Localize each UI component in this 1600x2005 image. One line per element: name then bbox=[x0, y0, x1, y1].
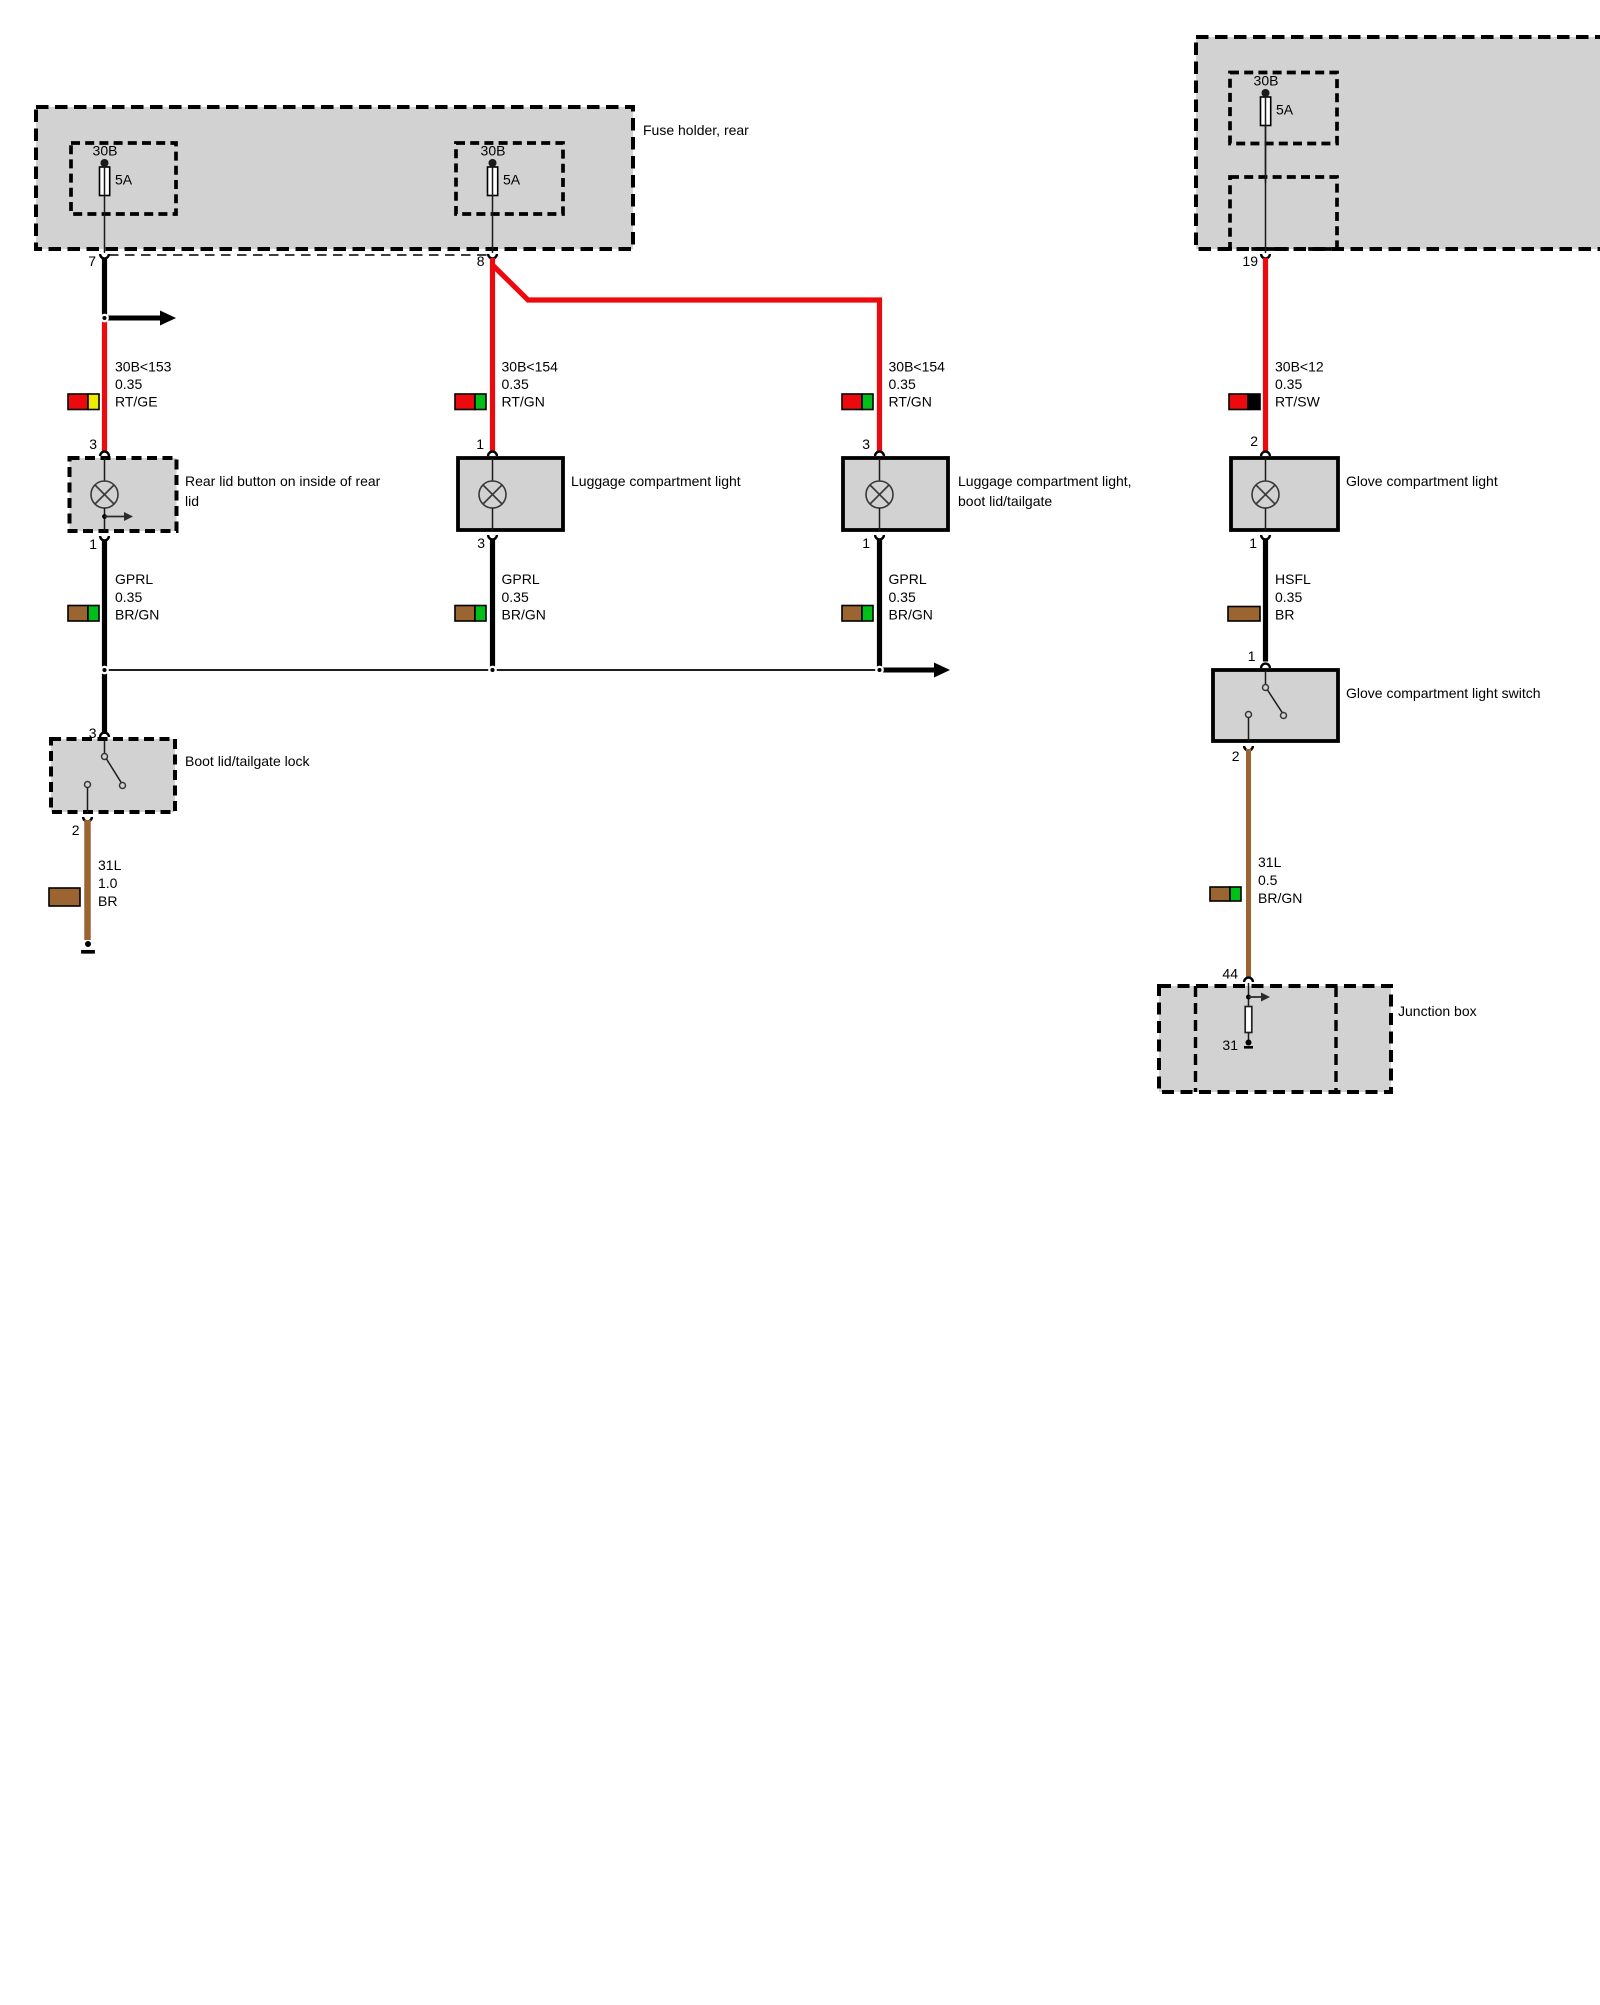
fuse F2 5A with 30B terminal bbox=[481, 143, 521, 254]
pin 19 bbox=[1242, 253, 1269, 269]
svg-text:2: 2 bbox=[72, 822, 80, 838]
svg-text:0.35: 0.35 bbox=[115, 589, 142, 605]
pin 1 of luggage compartment light boot lid bbox=[862, 535, 884, 551]
colour swatch RT/GN right bbox=[842, 394, 873, 410]
wire GPRL BR/GN middle (black) bbox=[490, 540, 495, 671]
pin 2 of glove compartment light bbox=[1250, 433, 1270, 456]
svg-text:1: 1 bbox=[1249, 535, 1257, 551]
svg-text:1.0: 1.0 bbox=[98, 875, 118, 891]
fuse F1 housing bbox=[71, 143, 176, 214]
label wire 30B<12 0.35 RT/SW bbox=[1275, 359, 1324, 410]
svg-text:0.5: 0.5 bbox=[1258, 872, 1278, 888]
junction node middle on ground line bbox=[489, 667, 495, 673]
boot lid lock switch symbol bbox=[85, 739, 126, 812]
wire GPRL BR/GN from pin 1 (black) bbox=[102, 540, 107, 735]
pin 7 bbox=[88, 253, 109, 269]
ground point left bbox=[81, 941, 95, 952]
pin 2 of boot lid lock bbox=[72, 817, 92, 838]
svg-text:30B: 30B bbox=[481, 143, 506, 159]
luggage compartment light lamp symbol bbox=[479, 458, 506, 530]
svg-text:19: 19 bbox=[1242, 253, 1258, 269]
wire inside fuse holder to pin 19 bbox=[1265, 125, 1267, 253]
svg-text:30B<153: 30B<153 bbox=[115, 359, 172, 375]
pin 3 of rear lid button bbox=[89, 436, 109, 456]
svg-text:GPRL: GPRL bbox=[502, 571, 540, 587]
svg-text:HSFL: HSFL bbox=[1275, 571, 1311, 587]
label wire HSFL 0.35 BR bbox=[1275, 571, 1311, 623]
wire 30B<154 RT/GN (red) from pin 8 bbox=[490, 258, 495, 452]
luggage compartment light housing bbox=[458, 458, 563, 530]
colour swatch BR/GN middle bbox=[455, 606, 486, 622]
svg-text:boot lid/tailgate: boot lid/tailgate bbox=[958, 493, 1052, 509]
pin 1 of rear lid button bbox=[89, 536, 109, 552]
wire 30B<153 RT/GE (red) bbox=[102, 318, 107, 452]
svg-text:RT/GE: RT/GE bbox=[115, 394, 158, 410]
svg-text:Luggage compartment light,: Luggage compartment light, bbox=[958, 473, 1132, 489]
connector housing in fuse holder bbox=[1230, 177, 1337, 249]
rear lid button internal node with arrow bbox=[102, 512, 133, 521]
svg-text:BR/GN: BR/GN bbox=[1258, 890, 1302, 906]
label wire 31L 1.0 BR bbox=[98, 857, 122, 909]
svg-text:0.35: 0.35 bbox=[1275, 589, 1302, 605]
rear lid button housing bbox=[70, 458, 177, 531]
junction box internal node with arrow bbox=[1246, 983, 1270, 1006]
svg-text:0.35: 0.35 bbox=[502, 589, 529, 605]
glove compartment light lamp symbol bbox=[1252, 458, 1279, 530]
connector line between pins 7 and 8 bbox=[109, 254, 488, 256]
svg-text:BR/GN: BR/GN bbox=[115, 607, 159, 623]
svg-text:BR/GN: BR/GN bbox=[889, 607, 933, 623]
pin 3 of luggage compartment light bbox=[477, 535, 497, 551]
junction box internal divider left bbox=[1194, 986, 1197, 1092]
svg-text:31L: 31L bbox=[1258, 854, 1282, 870]
label wire GPRL 0.35 BR/GN middle bbox=[502, 571, 546, 623]
svg-text:RT/GN: RT/GN bbox=[889, 394, 932, 410]
ground line arrow to other current track bbox=[880, 663, 951, 678]
svg-text:3: 3 bbox=[862, 436, 870, 452]
svg-text:1: 1 bbox=[862, 535, 870, 551]
svg-text:0.35: 0.35 bbox=[502, 376, 529, 392]
svg-text:BR: BR bbox=[98, 893, 117, 909]
colour swatch RT/GE bbox=[68, 394, 99, 410]
colour swatch BR right bbox=[1228, 607, 1260, 622]
junction box housing bbox=[1159, 986, 1391, 1092]
svg-text:5A: 5A bbox=[115, 172, 133, 188]
junction box fusible link bbox=[1245, 1007, 1252, 1033]
junction box ground 31 bbox=[1222, 1032, 1253, 1053]
svg-text:5A: 5A bbox=[503, 172, 521, 188]
fuse holder rear - outer housing bbox=[36, 107, 633, 249]
svg-text:1: 1 bbox=[1248, 648, 1256, 664]
svg-text:3: 3 bbox=[477, 535, 485, 551]
wire 31L BR/GN (brown) bbox=[1246, 749, 1251, 978]
label wire GPRL 0.35 BR/GN right bbox=[889, 571, 933, 623]
pin 1 of glove compartment light switch bbox=[1248, 648, 1270, 668]
svg-text:RT/SW: RT/SW bbox=[1275, 394, 1321, 410]
pin 3 of luggage compartment light boot lid bbox=[862, 436, 884, 456]
svg-text:Luggage compartment light: Luggage compartment light bbox=[571, 473, 741, 489]
label wire 30B<154 0.35 RT/GN middle bbox=[502, 359, 559, 410]
svg-text:44: 44 bbox=[1222, 966, 1238, 982]
svg-text:GPRL: GPRL bbox=[889, 571, 927, 587]
wire GPRL BR/GN right (black) bbox=[877, 540, 882, 671]
svg-text:Fuse holder, rear: Fuse holder, rear bbox=[643, 122, 749, 138]
svg-text:0.35: 0.35 bbox=[115, 376, 142, 392]
luggage compartment light boot lid housing bbox=[843, 458, 948, 530]
svg-text:2: 2 bbox=[1232, 748, 1240, 764]
svg-text:7: 7 bbox=[88, 253, 96, 269]
svg-text:3: 3 bbox=[89, 436, 97, 452]
colour swatch BR bbox=[49, 888, 80, 906]
svg-text:31: 31 bbox=[1222, 1037, 1238, 1053]
svg-text:Boot lid/tailgate lock: Boot lid/tailgate lock bbox=[185, 753, 311, 769]
glove compartment light housing bbox=[1231, 458, 1338, 530]
wire HSFL BR (black) bbox=[1263, 540, 1268, 662]
wire 30B<12 RT/SW (red) bbox=[1263, 258, 1268, 452]
svg-text:0.35: 0.35 bbox=[889, 376, 916, 392]
pin 44 of junction box bbox=[1222, 966, 1252, 983]
pin 1 of glove compartment light bbox=[1249, 535, 1270, 551]
glove compartment light switch housing bbox=[1213, 670, 1338, 741]
svg-text:BR: BR bbox=[1275, 607, 1294, 623]
label wire 30B<154 0.35 RT/GN right bbox=[889, 359, 946, 410]
svg-text:30B<12: 30B<12 bbox=[1275, 359, 1324, 375]
svg-text:1: 1 bbox=[476, 436, 484, 452]
pin 8 bbox=[477, 253, 497, 269]
junction node right on ground line bbox=[876, 667, 882, 673]
svg-text:lid: lid bbox=[185, 493, 199, 509]
svg-text:30B: 30B bbox=[1254, 73, 1279, 89]
colour swatch RT/SW bbox=[1229, 394, 1260, 410]
svg-text:1: 1 bbox=[89, 536, 97, 552]
label wire 31L 0.5 BR/GN bbox=[1258, 854, 1302, 906]
svg-text:30B<154: 30B<154 bbox=[889, 359, 946, 375]
fuse F3 5A with 30B terminal bbox=[1254, 73, 1294, 184]
svg-text:Glove compartment light switch: Glove compartment light switch bbox=[1346, 685, 1541, 701]
svg-text:0.35: 0.35 bbox=[889, 589, 916, 605]
luggage compartment light boot lid lamp symbol bbox=[866, 458, 893, 530]
svg-text:30B<154: 30B<154 bbox=[502, 359, 559, 375]
svg-text:2: 2 bbox=[1250, 433, 1258, 449]
rear lid button lamp symbol bbox=[91, 458, 118, 531]
colour swatch RT/GN middle bbox=[455, 394, 486, 410]
label wire GPRL 0.35 BR/GN left bbox=[115, 571, 159, 623]
svg-text:5A: 5A bbox=[1276, 102, 1294, 118]
junction box internal divider right bbox=[1334, 986, 1337, 1092]
glove compartment light switch symbol bbox=[1246, 670, 1287, 741]
colour swatch BR/GN bottom right bbox=[1210, 887, 1241, 901]
svg-text:0.35: 0.35 bbox=[1275, 376, 1302, 392]
fuse F1 5A with 30B terminal bbox=[93, 143, 133, 254]
svg-text:8: 8 bbox=[477, 253, 485, 269]
colour swatch BR/GN right bbox=[842, 606, 873, 622]
svg-text:30B: 30B bbox=[93, 143, 118, 159]
pin 2 of glove compartment light switch bbox=[1232, 746, 1253, 764]
label Rear lid button on inside of rear lid bbox=[185, 473, 381, 509]
junction node on pin-7 wire bbox=[101, 315, 107, 321]
wire from pin 7 (black) bbox=[102, 258, 107, 318]
svg-text:BR/GN: BR/GN bbox=[502, 607, 546, 623]
pin 1 of luggage compartment light bbox=[476, 436, 497, 456]
fuse F3 housing bbox=[1230, 73, 1337, 144]
svg-text:GPRL: GPRL bbox=[115, 571, 153, 587]
fuse holder front - outer housing bbox=[1196, 37, 1600, 249]
boot lid/tailgate lock housing bbox=[51, 739, 175, 812]
junction node left on ground line bbox=[101, 667, 107, 673]
ground distribution line bbox=[105, 669, 880, 671]
label Luggage compartment light, boot lid/tailgate bbox=[958, 473, 1132, 509]
wire 31L BR (brown) to ground bbox=[84, 820, 91, 940]
pin 3 of boot lid lock bbox=[89, 725, 109, 741]
svg-text:RT/GN: RT/GN bbox=[502, 394, 545, 410]
wire 30B<154 branch to right lamp (red) bbox=[493, 265, 880, 452]
arrow to other current track bbox=[105, 311, 177, 326]
svg-text:31L: 31L bbox=[98, 857, 122, 873]
label wire 30B<153 0.35 RT/GE bbox=[115, 359, 172, 410]
fuse F2 housing bbox=[456, 143, 563, 214]
colour swatch BR/GN left bbox=[68, 606, 99, 622]
svg-text:Rear lid button on inside of r: Rear lid button on inside of rear bbox=[185, 473, 381, 489]
svg-text:Glove compartment light: Glove compartment light bbox=[1346, 473, 1498, 489]
svg-text:Junction box: Junction box bbox=[1398, 1003, 1477, 1019]
